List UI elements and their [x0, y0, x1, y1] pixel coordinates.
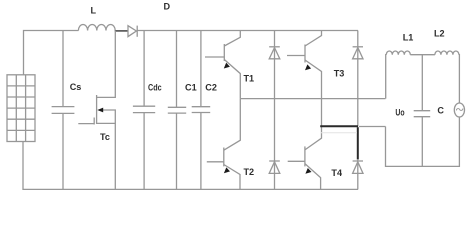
svg-text:L1: L1	[403, 32, 414, 42]
svg-text:Uo: Uo	[395, 108, 405, 118]
svg-text:Cs: Cs	[70, 82, 82, 92]
svg-text:D: D	[164, 1, 171, 11]
svg-text:C1: C1	[185, 83, 197, 93]
svg-text:C2: C2	[205, 82, 217, 92]
svg-text:T1: T1	[244, 74, 255, 84]
svg-text:L2: L2	[434, 29, 445, 39]
svg-text:Cdc: Cdc	[148, 83, 162, 93]
svg-text:C: C	[437, 106, 444, 116]
svg-text:T2: T2	[244, 167, 255, 177]
svg-text:T3: T3	[334, 69, 345, 79]
svg-text:Tc: Tc	[100, 132, 110, 142]
svg-text:T4: T4	[331, 168, 343, 178]
svg-text:L: L	[91, 6, 97, 16]
